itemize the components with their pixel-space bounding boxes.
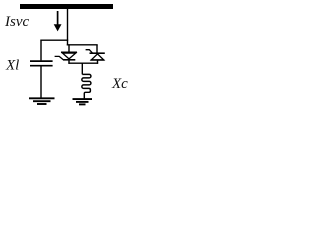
wire: main vertical from bus <box>67 9 69 45</box>
current arrow Isvc <box>54 11 62 31</box>
wire: drop to left thyristor <box>68 45 70 53</box>
wire: bottom rail <box>68 62 98 64</box>
thyristor Q2 (conducts up) <box>86 50 105 60</box>
inductor Xc coil <box>82 74 91 99</box>
thyristor Q1 (conducts down) <box>55 52 77 60</box>
wire: left branch horizontal <box>40 39 68 41</box>
ground (right) <box>73 99 93 104</box>
wire: capacitor bottom lead <box>40 67 42 98</box>
wire: drop to reactor <box>81 63 83 74</box>
wire: left thyristor bottom lead <box>68 60 70 64</box>
wire: top rail of thyristor pair <box>67 44 98 46</box>
svg-text:Xl: Xl <box>5 58 19 74</box>
ground (left) <box>29 98 55 104</box>
bus bar <box>20 4 113 9</box>
svg-text:Isvc: Isvc <box>4 14 29 30</box>
wire: capacitor top lead <box>40 40 42 61</box>
capacitor Xl plates <box>30 61 53 66</box>
svg-text:Xc: Xc <box>111 76 128 92</box>
wire: drop to right thyristor <box>96 45 98 54</box>
wire: right thyristor bottom lead <box>97 60 99 64</box>
